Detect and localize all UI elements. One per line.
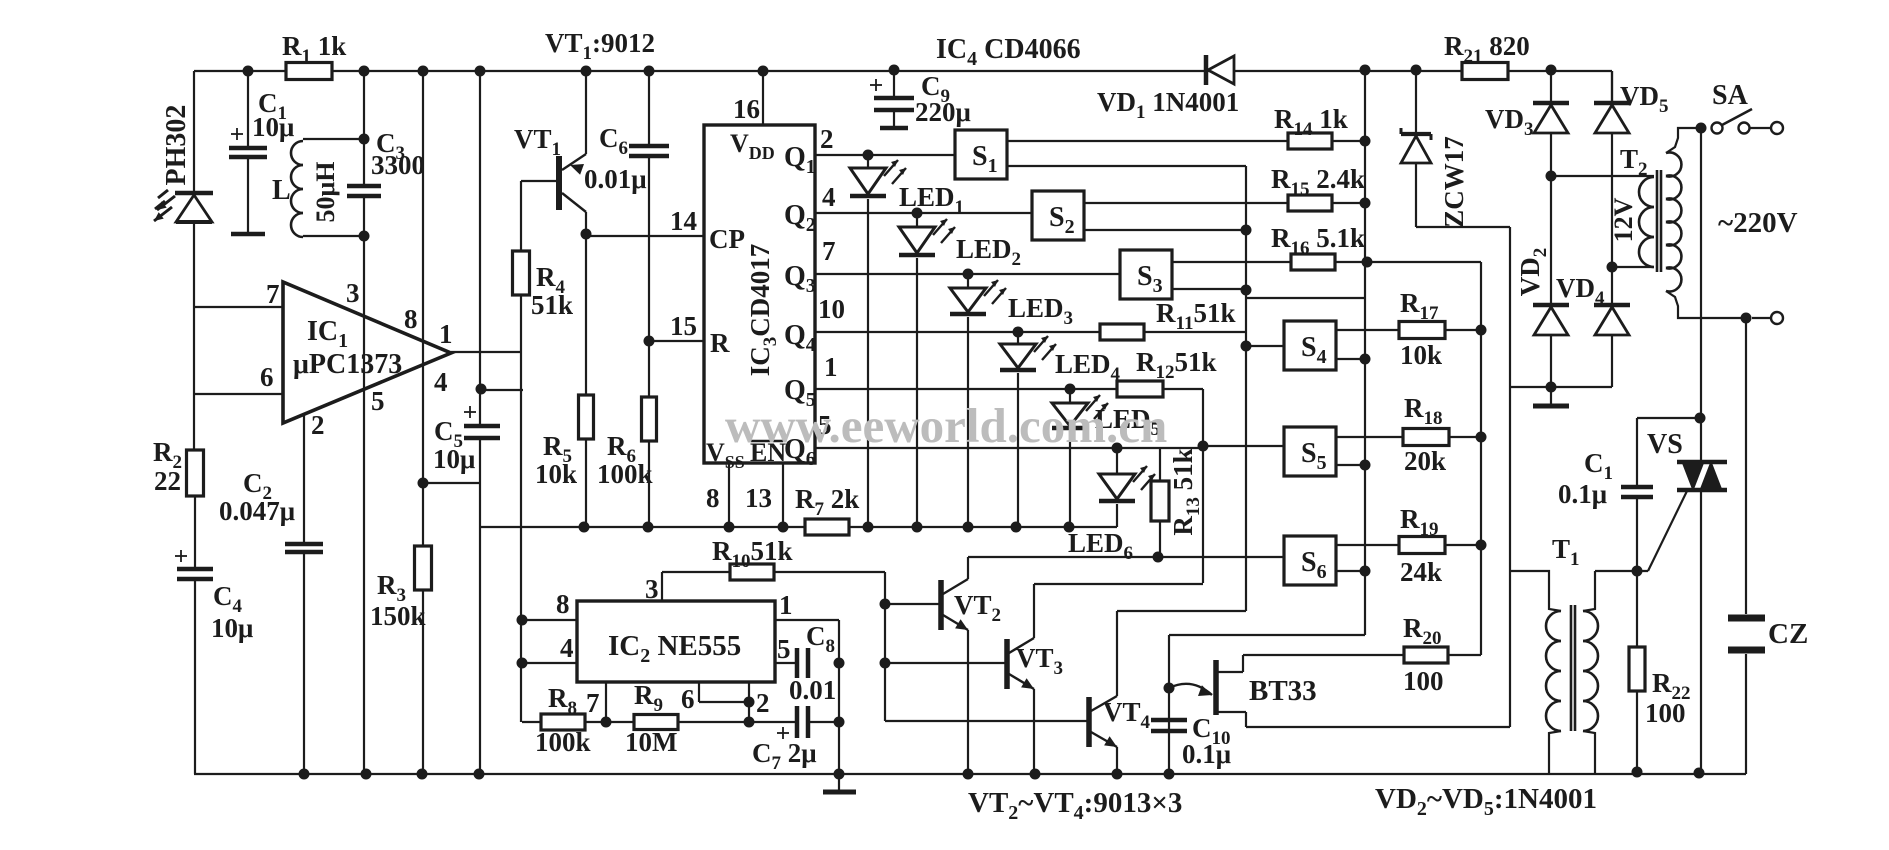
resistor R8 [522,683,606,757]
analog switch S3 [1120,250,1172,299]
label VT1:9012 [545,28,655,64]
svg-text:50μH: 50μH [311,162,340,223]
capacitor C9 [870,70,971,128]
svg-text:24k: 24k [1400,557,1442,587]
pin 3 stub [645,572,662,604]
svg-text:150k: 150k [370,601,426,631]
pin 4 stub [517,633,578,669]
svg-text:10M: 10M [625,727,677,757]
resistor R15 [1271,164,1371,211]
resistor R12 [1117,347,1217,397]
diode VD2 [1515,176,1569,393]
transistor VT1 (9012 PNP) [514,71,586,234]
svg-text:IC2 NE555: IC2 NE555 [608,630,741,667]
svg-text:2: 2 [756,688,770,718]
capacitor C2 [219,415,323,774]
pin 8 stub [517,589,578,626]
wire: SA node down to triac VS [1695,128,1706,462]
pin 5 stub [775,634,797,664]
capacitor C1 [229,71,294,234]
wire: reset line to CD4017 R pin15 [649,340,704,342]
svg-text:3300: 3300 [371,150,425,180]
LED LED6 [1068,448,1155,564]
resistor R14 [1274,104,1371,149]
LED LED3 [950,274,1073,527]
svg-text:100: 100 [1403,666,1444,696]
analog switch S5 [1284,427,1336,476]
watermark (decorative) [725,398,1167,453]
wire: S4 upper output to R17 [1336,329,1400,331]
wire: R10 node column x885 to transistor bases [880,572,891,721]
wire: switch output common column x1246 [1241,166,1252,611]
svg-text:CP: CP [709,224,745,254]
wire: R11 bend into S4 input [1144,332,1284,346]
wire: S3 lower output to common column [1172,285,1252,296]
wire: S5 upper output to R18 [1336,436,1404,438]
wire: S2 lower output to common column [1084,225,1252,236]
svg-text:R: R [710,328,730,358]
resistor R2 [153,437,204,496]
capacitor C3 [347,128,425,242]
wire: R17-R19 common column x1481 [1367,262,1481,655]
analog switch S4 [1284,321,1336,370]
svg-text:51k: 51k [531,290,573,320]
resistor R4 [513,181,574,320]
wire: S6 output node down to BT33 via y635 [1164,635,1366,774]
label IC4 CD4066 [936,34,1081,70]
svg-text:7: 7 [266,279,280,309]
resistor R9 [606,680,749,757]
pin number labels 14,15,8,13 [670,206,772,513]
capacitor C6 [584,71,669,341]
wire: pin1 to C8 column [775,620,845,774]
svg-text:1: 1 [824,352,838,382]
wire: VT1 collector to CD4017 CP pin14 [586,235,704,237]
resistor R18 [1403,393,1487,476]
svg-text:3: 3 [346,278,360,308]
svg-text:8: 8 [404,304,418,334]
svg-text:10: 10 [818,294,845,324]
diode VD5 [1594,71,1669,273]
svg-text:μPC1373: μPC1373 [293,349,402,380]
transistor VT3 (9013) [885,584,1063,774]
resistor R16 [1271,223,1373,270]
pin labels IC1 [260,278,453,440]
pin 16 VDD riser [733,71,763,125]
resistor R11 [1100,298,1235,340]
LED LED5 [1052,389,1160,527]
wire: Q1 line to S1 [815,150,955,161]
svg-text:220μ: 220μ [915,97,971,127]
node: top rail junctions [243,65,1557,77]
resistor R1 [282,31,346,80]
wire: C3 column x364 top rail to bottom rail [363,71,365,774]
svg-text:100: 100 [1645,698,1686,728]
svg-text:10k: 10k [1400,340,1442,370]
pin 2 stub [744,682,770,728]
resistor R21 [1444,31,1530,80]
transistor VT2 (9013) [885,557,1001,774]
svg-text:ZCW17: ZCW17 [1439,136,1469,228]
IC U2 NE555 box [577,601,775,682]
label PH302 [161,105,192,186]
svg-text:0.047μ: 0.047μ [219,496,295,526]
capacitor C8 [789,621,836,705]
svg-text:4: 4 [822,182,836,212]
svg-text:4: 4 [434,367,448,397]
pin 6 stub [681,682,755,714]
analog switch S1 (CD4066) [955,130,1007,179]
wire: S3 upper output to R16 [1172,261,1291,263]
capacitor C4 [175,496,253,774]
LED LED4 [1000,332,1121,527]
photodiode PH302 [154,71,213,307]
wire: PH302 to IC1 pin7 [194,306,283,308]
svg-text:100k: 100k [535,727,591,757]
wire: middle rail (LED cathodes / 555 ground row) [480,526,1117,528]
resistor R6 [597,336,657,528]
svg-text:10μ: 10μ [211,613,253,643]
wire: S1 upper output to R14 [1007,140,1288,142]
IC U3 CD4017 counter box [704,125,816,472]
diode VD4 [1556,267,1630,387]
resistor R3 [370,71,432,774]
label VT2~VT4:9013x3 [968,787,1182,824]
svg-text:0.01μ: 0.01μ [584,164,647,194]
triac VS [1647,429,1727,774]
wire: IC1 pin6 to R2 node [194,307,283,450]
wire: top supply rail [194,70,1612,72]
svg-text:7: 7 [586,688,600,718]
svg-text:0.1μ: 0.1μ [1182,739,1231,769]
pin 1 label [779,590,793,620]
svg-text:10μ: 10μ [433,444,475,474]
capacitor C7 [749,706,839,774]
wire: S5 lower output [1336,460,1371,471]
svg-text:8: 8 [706,483,720,513]
svg-text:1: 1 [779,590,793,620]
pin 7 stub [586,682,612,728]
svg-text:2: 2 [820,124,834,154]
svg-text:0.01: 0.01 [789,675,836,705]
ground under C7 [823,774,856,792]
label ~220V [1718,207,1798,239]
svg-text:100k: 100k [597,459,653,489]
mains terminal lower [1741,312,1784,324]
svg-text:12V: 12V [1609,197,1638,242]
svg-text:VS: VS [1647,429,1683,460]
transformer T1 [1510,534,1598,774]
wire: R12 bend down x1203 [1163,389,1209,583]
svg-text:0.1μ: 0.1μ [1558,479,1607,509]
transistor BT33 (UJT) [1169,655,1317,727]
svg-text:6: 6 [681,684,695,714]
analog switch S2 [1032,191,1084,240]
wire: Q2 line to S2 [815,208,1032,219]
svg-text:22: 22 [154,466,181,496]
svg-text:IC4 CD4066: IC4 CD4066 [936,34,1081,70]
svg-text:13: 13 [745,483,772,513]
svg-text:~220V: ~220V [1718,207,1798,239]
svg-text:L: L [272,175,291,206]
op-amp IC1 uPC1373 [283,282,451,423]
diode VD3 [1485,70,1569,182]
svg-text:20k: 20k [1404,446,1446,476]
label VD2~VD5:1N4001 [1375,783,1597,820]
svg-text:10k: 10k [535,459,577,489]
svg-text:PH302: PH302 [161,105,192,186]
wire: Q4 line to R11 [815,327,1100,338]
ground under rectifier [1533,387,1569,406]
resistor R5 [535,229,594,528]
node: middle rail junctions [579,522,1075,533]
svg-text:SA: SA [1712,80,1749,111]
svg-text:6: 6 [260,362,274,392]
capacitor C10 [1151,713,1231,769]
svg-text:7: 7 [822,236,836,266]
transformer T2 windings and core [1551,128,1746,318]
wire: rectifier bottom bus y387 [1510,386,1612,388]
wire: BT33 base2 line y727 to x1510 [1246,726,1510,728]
wire: S2 upper output to R15 [1084,202,1288,204]
LED LED2 [899,213,1021,527]
wire: bottom ground rail [194,773,1746,775]
wire: S1 lower output to common column [1007,165,1246,167]
svg-text:2: 2 [311,410,325,440]
wire: VS top to C1 column [1637,417,1700,419]
svg-text:3: 3 [645,574,659,604]
wire: S5 input [1203,445,1284,447]
wire: VT4 collector line y611 to switch common column [1117,610,1246,612]
resistor R22 [1629,566,1691,773]
resistor R10 [662,536,885,580]
wire: Q6 line to R13/S5 node [815,443,1203,454]
wire: top rail corner to VD5 [1611,71,1613,103]
LED LED1 [850,155,964,527]
wire: common column branch y298 to x1365 [1246,297,1365,299]
resistor R19 [1399,504,1487,587]
pin 8 riser [728,463,730,527]
svg-text:5: 5 [371,386,385,416]
svg-text:4: 4 [560,633,574,663]
wire: R4 bottom / IC1 pin1 / NE555 supply column x521 [451,295,521,722]
wire: VT2 collector line y557 to S6 input [968,552,1284,563]
wire: supply column x1365 from top rail to y635 [1364,70,1366,635]
wire: S6 upper output to R19 [1336,544,1400,546]
svg-text:15: 15 [670,311,697,341]
svg-text:CZ: CZ [1768,618,1808,650]
zener diode ZCW17 [1401,70,1469,228]
node: bottom rail junctions [299,767,1705,780]
inductor L 50uH [272,139,364,237]
svg-text:1: 1 [439,319,453,349]
resistor R13 [1151,448,1204,557]
transistor VT4 (9013) [885,611,1151,774]
analog switch S6 [1284,536,1336,585]
pin number labels Q outputs 2,4,7,10,1,5 [818,124,845,440]
resistor R7 [795,484,859,535]
switch SA [1696,80,1784,134]
wire: S6 lower output [1336,566,1371,577]
svg-text:BT33: BT33 [1249,675,1317,707]
wire: T1 secondary top to triac gate [1595,491,1687,571]
socket CZ [1728,318,1808,774]
svg-text:14: 14 [670,206,697,236]
resistor R17 [1399,288,1487,370]
pin 13 riser [782,463,784,527]
wire: VT3 collector line y584 to S5 node [1034,583,1203,585]
svg-text:5: 5 [777,634,791,664]
diode VD1 1N4001 [1097,55,1239,123]
svg-text:16: 16 [733,94,760,124]
svg-text:8: 8 [556,589,570,619]
wire: Q3 line to S3 [815,269,1122,280]
capacitor C1 (snubber) [1558,418,1653,571]
resistor R20 [1246,613,1481,696]
svg-text:www.eeworld.com.cn: www.eeworld.com.cn [725,398,1167,453]
wire: Q5 line to R12 [815,384,1117,395]
capacitor C5 [423,71,523,774]
wire: ZCW17 to rectifier negative column [1416,227,1510,727]
wire: S4 lower output [1336,354,1371,365]
svg-text:10μ: 10μ [252,112,294,142]
